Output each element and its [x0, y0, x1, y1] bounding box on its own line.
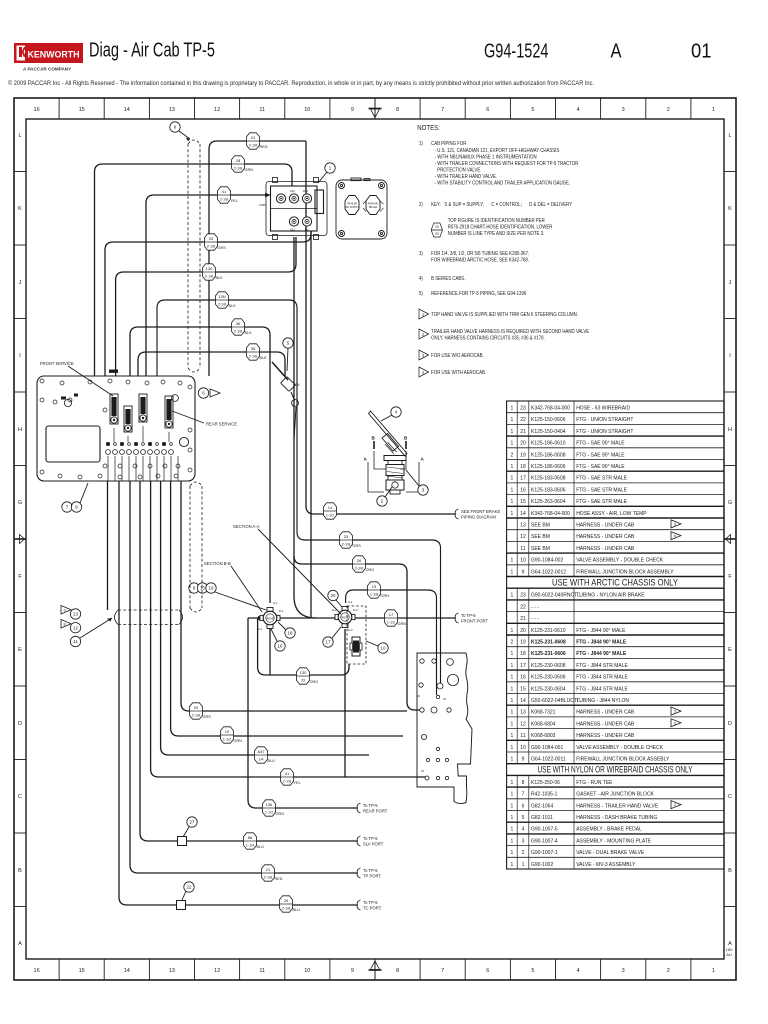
hex A37 BLU: [255, 747, 268, 763]
svg-text:14: 14: [328, 505, 333, 510]
svg-text:20: 20: [331, 593, 336, 598]
svg-text:SEE BM: SEE BM: [531, 546, 550, 552]
svg-text:19: 19: [520, 452, 526, 458]
hex 29 GRS: [190, 703, 203, 719]
section cut marks: [374, 441, 406, 449]
svg-text:BLU: BLU: [268, 759, 276, 763]
svg-text:1: 1: [422, 312, 424, 317]
svg-text:ORG: ORG: [276, 812, 285, 816]
svg-text:GRN: GRN: [398, 622, 407, 626]
svg-text:K068-7321: K068-7321: [531, 710, 556, 716]
svg-text:19: 19: [225, 729, 230, 734]
svg-text:1: 1: [511, 441, 514, 447]
svg-text:G90-1084-001: G90-1084-001: [531, 745, 563, 751]
svg-text:FTG - J844 STR MALE: FTG - J844 STR MALE: [576, 675, 628, 681]
svg-text:11: 11: [259, 107, 265, 113]
double check valve REAR (section B-B): [260, 608, 280, 629]
REAR SERVICE label: [172, 411, 204, 423]
svg-text:12: 12: [520, 534, 526, 540]
svg-text:ASSEMBLY - BRAKE PEDAL: ASSEMBLY - BRAKE PEDAL: [576, 827, 642, 833]
svg-text:41: 41: [285, 771, 290, 776]
svg-text:G94-1524: G94-1524: [484, 41, 549, 63]
svg-text:2-1/8: 2-1/8: [234, 166, 242, 170]
svg-text:GRN: GRN: [234, 739, 243, 743]
svg-text:2: 2: [422, 332, 424, 337]
hex 17 GRN: [385, 610, 398, 626]
svg-text:5: 5: [531, 968, 534, 974]
wire S11 delivery down-run: [294, 237, 422, 710]
svg-text:K125-231-0610: K125-231-0610: [531, 628, 566, 634]
svg-text:23: 23: [520, 406, 526, 412]
svg-text:TOP HAND VALVE IS SUPPLIED WIT: TOP HAND VALVE IS SUPPLIED WITH TRW GEN …: [431, 312, 578, 317]
MV-3 port at 307,198.5: [302, 194, 311, 203]
svg-text:HARNESS - UNDER CAB: HARNESS - UNDER CAB: [576, 546, 635, 552]
svg-text:11: 11: [259, 968, 265, 974]
hex 13 GRN: [368, 582, 381, 598]
MV-3 port at 294,221.5: [289, 217, 298, 226]
svg-text:G50-6022-04BLUCTL: G50-6022-04BLUCTL: [531, 698, 580, 704]
svg-text:3: 3: [522, 838, 525, 844]
panel small fittings mid row: [106, 442, 174, 454]
flag note 2: [419, 329, 429, 339]
svg-text:K125-183-0608: K125-183-0608: [531, 476, 566, 482]
svg-text:FIREWALL JUNCTION BLOCK ASSEBL: FIREWALL JUNCTION BLOCK ASSEBLY: [576, 757, 670, 763]
panel connector cutout: [46, 426, 100, 462]
svg-text:I: I: [19, 353, 21, 359]
svg-text:AU: AU: [726, 952, 732, 957]
svg-text:G90-6022-040RNCTL: G90-6022-040RNCTL: [531, 593, 580, 599]
svg-text:FOR USE W/O AEROCAB.: FOR USE W/O AEROCAB.: [431, 353, 484, 358]
hex 130-33 ORG: [297, 668, 310, 684]
svg-text:2: 2: [522, 850, 525, 856]
svg-text:1: 1: [511, 429, 514, 435]
svg-text:SEE FRONT BRAKE: SEE FRONT BRAKE: [461, 509, 500, 514]
svg-text:D21: D21: [303, 189, 309, 193]
svg-text:01: 01: [691, 41, 712, 63]
svg-text:K125-231-0606: K125-231-0606: [531, 651, 566, 657]
svg-text:23: 23: [344, 534, 349, 539]
wire S11 branch to valve line: [294, 556, 316, 618]
svg-text:2-1/8: 2-1/8: [218, 302, 226, 306]
svg-text:H: H: [728, 427, 732, 433]
svg-text:1: 1: [511, 476, 514, 482]
svg-text:4): 4): [419, 276, 423, 281]
svg-text:2-1/8: 2-1/8: [282, 906, 290, 910]
svg-text:ORG: ORG: [310, 680, 319, 684]
svg-text:K125-230-0608: K125-230-0608: [531, 663, 566, 669]
svg-text:16: 16: [278, 644, 283, 649]
svg-text:PIPING DIAGRAM: PIPING DIAGRAM: [461, 515, 496, 520]
svg-text:14: 14: [124, 107, 130, 113]
svg-text:1: 1: [511, 757, 514, 763]
svg-text:HARNESS - UNDER CAB: HARNESS - UNDER CAB: [576, 721, 635, 727]
svg-text:12: 12: [520, 721, 526, 727]
hex label 28 GRN: [232, 156, 245, 172]
svg-text:To TP-5: To TP-5: [461, 613, 476, 618]
double check valve item 10: [350, 637, 362, 656]
svg-text:17: 17: [520, 476, 526, 482]
svg-text:D-1: D-1: [279, 609, 284, 613]
svg-text:1-1/4: 1-1/4: [246, 843, 254, 847]
svg-text:1: 1: [511, 792, 514, 798]
svg-text:16: 16: [520, 487, 526, 493]
svg-text:9: 9: [351, 107, 354, 113]
svg-text:8: 8: [396, 107, 399, 113]
wire D2 down-run: [310, 231, 312, 617]
svg-text:17: 17: [389, 612, 394, 617]
flag note 1: [419, 309, 429, 319]
svg-text:8: 8: [522, 780, 525, 786]
dashed box around item 10: [347, 606, 366, 664]
svg-text:TUBING - NYLON AIR BRAKE: TUBING - NYLON AIR BRAKE: [576, 593, 645, 599]
svg-text:1: 1: [511, 558, 514, 564]
svg-text:24: 24: [251, 135, 256, 140]
svg-text:K: K: [18, 206, 22, 212]
svg-text:14: 14: [124, 968, 130, 974]
svg-text:13: 13: [520, 710, 526, 716]
svg-text:1: 1: [511, 675, 514, 681]
svg-text:K125-230-0606: K125-230-0606: [531, 675, 566, 681]
svg-text:© 2009 PACCAR Inc - All Rights: © 2009 PACCAR Inc - All Rights Reserved …: [8, 80, 594, 87]
svg-text:A: A: [421, 457, 425, 462]
svg-text:B SERIES CABS.: B SERIES CABS.: [431, 276, 465, 281]
mounting plate bracket: [417, 653, 472, 804]
svg-text:13: 13: [520, 523, 526, 529]
svg-text:10: 10: [304, 107, 310, 113]
svg-text:K125-150-0606: K125-150-0606: [531, 417, 566, 423]
hex label 24 RED: [247, 133, 260, 149]
svg-text:TP PORT: TP PORT: [363, 874, 381, 879]
svg-text:88: 88: [248, 835, 253, 840]
svg-text:14: 14: [520, 698, 526, 704]
dash gauge plate: [336, 178, 387, 239]
svg-text:SEE BM: SEE BM: [531, 523, 550, 529]
svg-text:9: 9: [522, 569, 525, 575]
svg-text:GRS: GRS: [353, 544, 362, 548]
svg-text:R076-2918 CHART-HOSE IDENTIFIC: R076-2918 CHART-HOSE IDENTIFICATION. LOW…: [448, 224, 553, 229]
svg-text:G90-1007-1: G90-1007-1: [531, 850, 558, 856]
svg-text:1: 1: [511, 487, 514, 493]
MV-3 port at 294,198.5: [289, 194, 298, 203]
svg-text:HARNESS - UNDER CAB: HARNESS - UNDER CAB: [576, 523, 635, 529]
svg-text:2: 2: [667, 968, 670, 974]
hex label 130 BLK: [203, 264, 216, 280]
svg-text:22: 22: [520, 417, 526, 423]
EX quick release fitting: [272, 362, 298, 556]
svg-text:BLK: BLK: [245, 331, 253, 335]
valve1 bottom stub: [269, 628, 271, 675]
svg-text:35: 35: [251, 346, 256, 351]
svg-text:B: B: [728, 868, 732, 874]
svg-text:16: 16: [520, 675, 526, 681]
svg-text:1: 1: [511, 827, 514, 833]
svg-text:K125-150-0404: K125-150-0404: [531, 429, 566, 435]
svg-text:2-1/8: 2-1/8: [355, 566, 363, 570]
svg-text:FTG - SAE STR MALE: FTG - SAE STR MALE: [576, 476, 628, 482]
svg-text:03: 03: [435, 225, 439, 229]
hex 19 GRN: [221, 727, 234, 743]
svg-text:FTG - RUN TEE: FTG - RUN TEE: [576, 780, 613, 786]
svg-text:15: 15: [520, 686, 526, 692]
svg-text:1: 1: [511, 710, 514, 716]
svg-text:K125-186-0610: K125-186-0610: [531, 441, 566, 447]
hex 26 BLU: [280, 896, 293, 912]
svg-text:15: 15: [79, 107, 85, 113]
svg-text:2-1/8: 2-1/8: [249, 143, 257, 147]
svg-text:FOR USE WITH AEROCAB.: FOR USE WITH AEROCAB.: [431, 370, 486, 375]
svg-text:K068-6804: K068-6804: [531, 721, 556, 727]
svg-text:22: 22: [187, 885, 192, 890]
port FRONT: [455, 613, 458, 623]
svg-text:1: 1: [712, 107, 715, 113]
svg-text:FRONT: FRONT: [340, 616, 350, 620]
drawing frame inner border: [26, 119, 724, 959]
svg-text:- - -: - - -: [531, 604, 539, 610]
svg-text:F: F: [728, 574, 732, 580]
port TC: [357, 900, 360, 910]
wire 41 YEL run: [146, 195, 266, 376]
svg-text:1: 1: [511, 780, 514, 786]
svg-text:VALVE ASSEMBLY - DOUBLE CHECK: VALVE ASSEMBLY - DOUBLE CHECK: [576, 745, 664, 751]
svg-text:GRS: GRS: [203, 715, 212, 719]
svg-text:6: 6: [486, 968, 489, 974]
svg-text:2-1/8: 2-1/8: [342, 542, 350, 546]
svg-text:K342-768-04-000: K342-768-04-000: [531, 511, 570, 517]
svg-text:CAB PIPING FOR: CAB PIPING FOR: [431, 141, 467, 146]
svg-text:To TP-5: To TP-5: [363, 900, 378, 905]
svg-text:BLK: BLK: [216, 276, 224, 280]
svg-text:1: 1: [511, 686, 514, 692]
svg-text:HARNESS - UNDER CAB: HARNESS - UNDER CAB: [576, 710, 635, 716]
svg-text:19: 19: [520, 640, 526, 646]
wire 33 GRS run: [105, 231, 311, 376]
svg-text:E: E: [18, 647, 22, 653]
svg-text:R42-1035-1: R42-1035-1: [531, 792, 558, 798]
svg-text:BLK: BLK: [260, 356, 268, 360]
svg-text:G90-1002: G90-1002: [531, 862, 553, 868]
hex label 36 BLK: [232, 319, 245, 335]
svg-text:FOR 1/4, 3/8, 1/2, OR 5/8 TUBI: FOR 1/4, 3/8, 1/2, OR 5/8 TUBING SEE K28…: [431, 251, 529, 256]
svg-text:F: F: [18, 574, 22, 580]
svg-text:FOR WIREBRAID ARCTIC HOSE, SEE: FOR WIREBRAID ARCTIC HOSE, SEE K342-768.: [431, 257, 529, 262]
svg-text:1: 1: [511, 628, 514, 634]
balloon 1: [325, 163, 335, 173]
svg-text:18: 18: [288, 631, 293, 636]
svg-text:HARNESS - UNDER CAB: HARNESS - UNDER CAB: [576, 733, 635, 739]
svg-text:33: 33: [209, 236, 214, 241]
svg-text:EX: EX: [295, 383, 300, 387]
svg-text:13: 13: [169, 968, 175, 974]
svg-text:FTG - UNION STRAIGHT: FTG - UNION STRAIGHT: [576, 429, 633, 435]
svg-text:K125-186-0606: K125-186-0606: [531, 464, 566, 470]
svg-text:L: L: [728, 133, 731, 139]
balloon 5 near EX: [283, 338, 293, 348]
svg-text:23: 23: [520, 593, 526, 599]
svg-text:9: 9: [351, 968, 354, 974]
conduit capsule vertical: [188, 140, 200, 372]
svg-text:GRS: GRS: [218, 246, 227, 250]
svg-text:4: 4: [522, 827, 525, 833]
svg-text:1: 1: [511, 803, 514, 809]
svg-text:USE WITH ARCTIC CHASSIS ONLY: USE WITH ARCTIC CHASSIS ONLY: [552, 576, 679, 587]
svg-text:45: 45: [421, 769, 424, 773]
svg-text:SECTION B-B: SECTION B-B: [204, 561, 231, 566]
svg-text:13: 13: [372, 584, 377, 589]
port TP: [357, 868, 360, 878]
svg-text:1-1/2: 1-1/2: [223, 737, 231, 741]
svg-text:- WITH TRAILER CONNECTIONS WIT: - WITH TRAILER CONNECTIONS WITH REQUEST …: [435, 161, 579, 166]
svg-text:1: 1: [712, 968, 715, 974]
svg-text:B: B: [18, 868, 22, 874]
hex 136 ORG: [263, 800, 276, 816]
wire 13N BLK run: [157, 300, 441, 683]
firewall junction block panel: [37, 376, 195, 481]
svg-text:FTG - UNION STRAIGHT: FTG - UNION STRAIGHT: [576, 417, 633, 423]
svg-text:HARNESS - UNDER CAB: HARNESS - UNDER CAB: [576, 534, 635, 540]
svg-text:FRONT PORT: FRONT PORT: [461, 619, 489, 624]
svg-text:To TP-5: To TP-5: [363, 836, 378, 841]
svg-text:20: 20: [520, 628, 526, 634]
svg-text:YEL: YEL: [294, 781, 301, 785]
svg-text:FTG - J844 90° MALE: FTG - J844 90° MALE: [576, 640, 627, 646]
svg-text:G: G: [18, 500, 22, 506]
svg-text:1-1/2: 1-1/2: [387, 620, 395, 624]
svg-text:13: 13: [169, 107, 175, 113]
svg-text:33: 33: [443, 697, 446, 701]
svg-text:12: 12: [214, 968, 220, 974]
svg-text:2: 2: [674, 803, 676, 807]
svg-text:13: 13: [73, 612, 78, 617]
svg-text:YEL: YEL: [231, 199, 238, 203]
svg-text:FTG - SAE STR MALE: FTG - SAE STR MALE: [576, 499, 628, 505]
svg-text:VALVE ASSEMBLY - DOUBLE CHECK: VALVE ASSEMBLY - DOUBLE CHECK: [576, 558, 664, 564]
svg-text:11: 11: [73, 639, 78, 644]
svg-text:- WITH NB1/NAMUX PHASE 1 INSTR: - WITH NB1/NAMUX PHASE 1 INSTRUMENTATION: [435, 154, 537, 159]
balloon 6 top: [170, 122, 180, 132]
hex label 13N BLK: [216, 292, 229, 308]
svg-text:1: 1: [511, 499, 514, 505]
wire 28 GRN run: [95, 164, 293, 376]
svg-text:17: 17: [326, 640, 331, 645]
MV-3 port at 281,198.5: [276, 194, 285, 203]
svg-text:12: 12: [214, 107, 220, 113]
svg-text:A PACCAR COMPANY: A PACCAR COMPANY: [23, 67, 71, 72]
svg-text:D-2: D-2: [353, 608, 358, 612]
svg-text:GASKET - AIR JUNCTION BLOCK: GASKET - AIR JUNCTION BLOCK: [576, 792, 654, 798]
svg-text:REAR PORT: REAR PORT: [363, 809, 388, 814]
svg-text:A37: A37: [257, 749, 265, 754]
note 2 hexagon symbol: [431, 223, 442, 237]
svg-text:1: 1: [511, 593, 514, 599]
svg-text:To TP-5: To TP-5: [363, 803, 378, 808]
svg-text:2-1/8: 2-1/8: [207, 244, 215, 248]
svg-text:S-2: S-2: [348, 600, 353, 604]
svg-text:36: 36: [417, 694, 420, 698]
svg-text:16: 16: [34, 968, 40, 974]
svg-text:REAR SERVICE: REAR SERVICE: [206, 422, 237, 427]
balloons 7 and 9: [62, 502, 72, 512]
wire 13 GRN run: [346, 590, 437, 695]
svg-text:HARNESS - DASH BRAKE TUBING: HARNESS - DASH BRAKE TUBING: [576, 815, 657, 821]
flag note 3: [419, 350, 429, 360]
svg-text:TRAILER HAND VALVE HARNESS IS: TRAILER HAND VALVE HARNESS IS REQUIRED W…: [431, 329, 589, 334]
port SLV: [357, 836, 360, 846]
svg-text:9: 9: [64, 609, 66, 613]
hex 88 BLU: [244, 833, 257, 849]
svg-text:10: 10: [304, 968, 310, 974]
wire 24 RED run: [209, 141, 306, 376]
svg-text:FTG - J844 STR MALE: FTG - J844 STR MALE: [576, 686, 628, 692]
svg-text:HARNESS - TRAILER HAND VALVE: HARNESS - TRAILER HAND VALVE: [576, 803, 659, 809]
svg-text:2-1/8: 2-1/8: [220, 197, 228, 201]
svg-text:- U.S. 121, CANADIAN 121, EXPO: - U.S. 121, CANADIAN 121, EXPORT OFF-HIG…: [435, 148, 560, 153]
main delivery line y618: [248, 617, 455, 619]
svg-text:7: 7: [441, 107, 444, 113]
svg-text:1: 1: [511, 651, 514, 657]
svg-text:19: 19: [209, 586, 214, 591]
svg-text:B: B: [404, 436, 408, 441]
svg-text:FTG - SAE 90° MALE: FTG - SAE 90° MALE: [576, 441, 625, 447]
svg-text:15: 15: [79, 968, 85, 974]
svg-text:1: 1: [511, 745, 514, 751]
svg-text:20: 20: [520, 441, 526, 447]
svg-text:REAR: REAR: [266, 617, 274, 621]
svg-text:FIREWALL JUNCTION BLOCK ASSEMB: FIREWALL JUNCTION BLOCK ASSEMBLY: [576, 569, 674, 575]
svg-text:D2: D2: [305, 228, 309, 232]
svg-text:6: 6: [522, 803, 525, 809]
svg-text:C050: C050: [259, 203, 266, 207]
hex 26 ORG: [353, 556, 366, 572]
svg-text:10: 10: [520, 745, 526, 751]
svg-text:1: 1: [511, 698, 514, 704]
svg-text:BLK: BLK: [229, 304, 237, 308]
svg-text:26: 26: [284, 898, 289, 903]
hex label 41 YEL: [218, 187, 231, 203]
svg-text:K068-6803: K068-6803: [531, 733, 556, 739]
svg-text:1: 1: [511, 406, 514, 412]
svg-text:5: 5: [531, 107, 534, 113]
svg-text:2: 2: [667, 107, 670, 113]
rear port drop from valve line: [248, 618, 357, 808]
flag note 4: [419, 367, 429, 377]
svg-text:12: 12: [73, 625, 78, 630]
wire 130 BLK run: [116, 237, 296, 376]
parts list table: [507, 401, 724, 869]
hex 14 line label: [324, 503, 337, 519]
svg-text:11: 11: [520, 733, 525, 739]
svg-text:FTG - J844 90° MALE: FTG - J844 90° MALE: [576, 651, 627, 657]
svg-text:1: 1: [522, 862, 525, 868]
svg-text:S-1: S-1: [258, 627, 263, 631]
svg-text:1-1/8: 1-1/8: [370, 592, 378, 596]
svg-text:Diag - Air Cab TP-5: Diag - Air Cab TP-5: [89, 40, 215, 62]
svg-text:2: 2: [511, 640, 514, 646]
svg-text:2-1/8: 2-1/8: [264, 875, 272, 879]
svg-text:18: 18: [520, 464, 526, 470]
svg-text:VALVE - DUAL BRAKE VALVE: VALVE - DUAL BRAKE VALVE: [576, 850, 645, 856]
svg-text:D-2: D-2: [348, 628, 353, 632]
svg-text:11: 11: [520, 546, 525, 552]
svg-text:TC PORT: TC PORT: [363, 906, 382, 911]
svg-text:RED: RED: [275, 877, 283, 881]
svg-text:S12: S12: [290, 189, 295, 193]
svg-text:SLV PORT: SLV PORT: [363, 842, 384, 847]
svg-text:PROTECTION VALVE.: PROTECTION VALVE.: [437, 167, 481, 172]
svg-text:TOP FIGURE IS IDENTIFICATION N: TOP FIGURE IS IDENTIFICATION NUMBER PER: [448, 218, 546, 223]
svg-text:33: 33: [301, 678, 305, 682]
svg-text:1/4: 1/4: [259, 757, 264, 761]
svg-text:A: A: [18, 941, 22, 947]
